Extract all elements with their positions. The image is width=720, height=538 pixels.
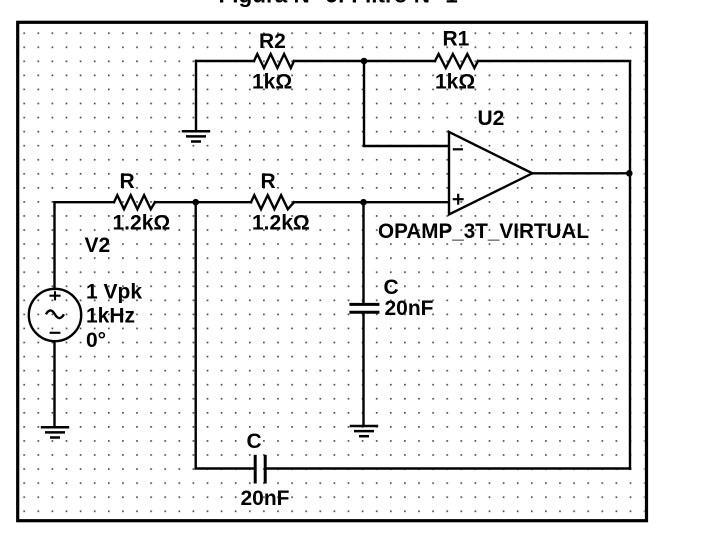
svg-text:1.2kΩ: 1.2kΩ <box>252 212 310 235</box>
svg-text:R: R <box>120 170 135 193</box>
svg-text:U2: U2 <box>478 107 505 130</box>
svg-text:R1: R1 <box>443 28 470 51</box>
svg-text:20nF: 20nF <box>241 487 290 510</box>
svg-text:1kHz: 1kHz <box>86 305 135 328</box>
svg-text:C: C <box>247 430 262 453</box>
svg-text:0°: 0° <box>86 329 106 352</box>
svg-text:R2: R2 <box>259 30 286 53</box>
svg-text:V2: V2 <box>85 234 111 257</box>
svg-text:OPAMP_3T_VIRTUAL: OPAMP_3T_VIRTUAL <box>378 220 589 243</box>
svg-text:1kΩ: 1kΩ <box>252 71 292 94</box>
svg-text:Figura N° 6: Filtro N° 1: Figura N° 6: Filtro N° 1 <box>219 0 458 7</box>
svg-text:20nF: 20nF <box>385 297 434 320</box>
svg-text:1kΩ: 1kΩ <box>435 71 475 94</box>
svg-text:1.2kΩ: 1.2kΩ <box>113 212 171 235</box>
svg-text:1 Vpk: 1 Vpk <box>86 281 142 304</box>
svg-text:R: R <box>261 170 276 193</box>
svg-text:C: C <box>384 276 399 299</box>
